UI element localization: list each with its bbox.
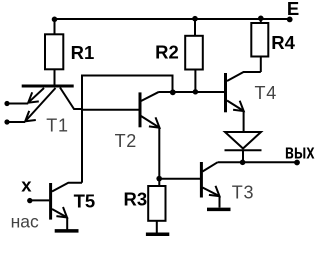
transistor T2 xyxy=(82,92,160,128)
svg-text:T2: T2 xyxy=(115,131,137,151)
resistor R2 xyxy=(185,19,203,92)
svg-text:R3: R3 xyxy=(124,189,148,210)
svg-text:x: x xyxy=(21,175,32,196)
junction rail-R4 xyxy=(258,15,264,21)
transistor T3 xyxy=(201,162,219,208)
svg-text:T5: T5 xyxy=(74,191,96,212)
svg-text:R2: R2 xyxy=(155,42,179,63)
transistor T4 xyxy=(226,72,261,132)
junction rail-R2 xyxy=(192,16,198,22)
power rail E wire xyxy=(55,18,291,20)
wire: junction to T3 base xyxy=(159,178,200,180)
svg-text:T4: T4 xyxy=(255,83,277,103)
transistor T5 xyxy=(30,183,82,230)
input wire 1 xyxy=(7,103,28,105)
diode D1 xyxy=(225,132,262,162)
multi-emitter transistor T1 xyxy=(22,86,82,121)
junction: diode cathode to output xyxy=(240,160,246,166)
terminal dot E xyxy=(287,17,293,23)
resistor R3 xyxy=(148,186,165,234)
ground R3 xyxy=(146,232,169,236)
junction rail-R1 xyxy=(52,17,58,23)
svg-text:T1: T1 xyxy=(46,116,68,136)
ground T5 xyxy=(55,229,79,233)
junction: R2 lead xyxy=(193,89,198,94)
svg-text:T3: T3 xyxy=(232,182,254,202)
input terminal dot 2 xyxy=(4,119,9,124)
input terminal dot 1 xyxy=(4,101,9,106)
svg-text:R4: R4 xyxy=(271,32,295,53)
terminal dot вых xyxy=(294,160,300,166)
wire: T2 collector to T4 base xyxy=(159,91,224,93)
wire: bus top link to T2 collector node xyxy=(82,76,173,93)
svg-text:вых: вых xyxy=(285,140,315,163)
input wire 2 xyxy=(7,121,25,123)
wire: T2 emitter down to R3 xyxy=(158,128,160,187)
base terminal dot x xyxy=(27,198,32,203)
svg-text:E: E xyxy=(287,0,299,19)
junction: link/T2 collector xyxy=(170,89,176,95)
resistor R1 xyxy=(45,19,63,86)
node bus: T1 collector / T5 collector / T2 base xyxy=(81,75,83,183)
ground T3 xyxy=(207,208,231,212)
svg-text:R1: R1 xyxy=(71,42,95,63)
svg-text:нас: нас xyxy=(11,212,39,232)
junction: emitter/R3/T3 base xyxy=(156,176,162,182)
resistor R4 xyxy=(251,19,268,72)
wire: output net (T3 collector to вых) xyxy=(218,161,298,163)
